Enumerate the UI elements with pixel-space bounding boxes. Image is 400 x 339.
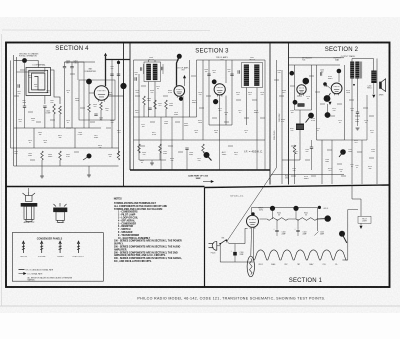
switch SW1 on/off: [220, 240, 226, 244]
test point TP15: [270, 206, 275, 211]
label rectifier label: [258, 208, 264, 212]
wire up to rect pin: [245, 228, 248, 243]
label C204 label: [355, 119, 359, 123]
wire stub s2: [290, 85, 295, 87]
capacitor C406: [94, 114, 97, 115]
label C203 label: [305, 149, 309, 153]
label value C217 section2: [350, 164, 354, 168]
wire s2 vertical b: [281, 70, 283, 184]
capacitor C301 trimmer: [162, 67, 163, 70]
capacitor C403: [110, 74, 113, 75]
wire bus s2 lower: [317, 139, 345, 141]
junction rect top: [251, 212, 254, 215]
wire to ground G3: [151, 160, 153, 163]
ground G4: [356, 128, 360, 130]
capacitor C201: [325, 83, 326, 86]
label value R409 section4: [75, 98, 80, 102]
junction switch in: [219, 243, 221, 245]
wire padder down: [44, 107, 46, 128]
wire top bus s4 ext: [65, 61, 85, 63]
resistor R405: [59, 151, 62, 160]
test point TP4 1st IF grid: [177, 54, 182, 59]
wire s3 drop to bottom 5: [256, 140, 258, 170]
label value C314 section3: [198, 92, 202, 96]
test point TP13 50A5 grid: [324, 95, 331, 102]
wire 2nd IF cathode down: [219, 95, 221, 140]
label ground note section 4: [19, 53, 39, 58]
wire stub s3: [244, 117, 249, 119]
wire stub s2: [369, 157, 374, 159]
test point TP5 1st IF cathode: [179, 97, 183, 101]
label Z300 label: [148, 57, 154, 61]
wire 2nd IF plate up: [225, 60, 227, 83]
label value C318 section3: [260, 92, 264, 96]
wire stub s4: [28, 111, 33, 113]
wire c204 down: [357, 113, 359, 126]
resistor R101: [296, 218, 317, 221]
wire s2 vertical g: [351, 95, 353, 184]
label value C313 section3: [174, 112, 178, 116]
wire stub s3: [206, 95, 211, 97]
label value C319 section3: [244, 130, 248, 134]
label value C213 section2: [350, 108, 354, 112]
legend arrowhead: [23, 272, 26, 275]
capacitor C305 trimmer: [238, 70, 239, 73]
wire stub s2: [363, 107, 368, 109]
wire c407 down: [24, 107, 26, 128]
resistor R300: [143, 96, 146, 105]
coil Z300 primary: [146, 64, 151, 80]
label R201 value: [294, 151, 298, 155]
wire s3 vertical e: [208, 60, 210, 125]
test point TP3 wave switch: [87, 154, 92, 159]
resistor R100: [267, 218, 288, 221]
label value R206 section2: [282, 90, 286, 94]
wire thick bus to divider: [106, 59, 131, 61]
resistor R402: [59, 106, 62, 114]
wire r401 down: [100, 110, 102, 120]
wire stub s4: [36, 121, 41, 123]
tube V2 7B7 1st IF: [174, 86, 185, 98]
wire stub to TP17: [317, 218, 324, 220]
label R203 label: [371, 149, 375, 153]
wire stub s4: [106, 127, 111, 129]
wire section 3 left edge: [129, 43, 131, 170]
wire stub s4: [70, 73, 75, 75]
wire 2nd IF out down: [225, 96, 227, 125]
wire stub s3: [191, 75, 196, 77]
wire s2 vertical d: [311, 65, 313, 110]
wire s3 drop mid 3: [182, 96, 184, 140]
wire stub s4: [30, 159, 35, 161]
label value R317 section3: [152, 132, 157, 136]
speaker SP1: [380, 79, 386, 92]
wire stub s3: [141, 85, 146, 87]
wire stub s3: [228, 145, 233, 147]
label value R407 section4: [34, 84, 38, 88]
wire stub s2: [355, 115, 360, 117]
test point TP volume: [308, 113, 314, 119]
knob control VOLUME: [40, 241, 43, 253]
resistor R306: [202, 144, 205, 153]
wire rect to ballast: [250, 228, 253, 257]
wire c100 top: [234, 244, 236, 252]
wire cap C103 drop: [276, 219, 278, 230]
label R403 label: [38, 132, 42, 136]
capacitor C308: [185, 148, 188, 149]
wire drop x317: [316, 208, 318, 232]
wire TP volume tail: [306, 116, 312, 123]
label value C412 section4: [28, 75, 32, 79]
label R405 value: [66, 154, 71, 158]
capacitor C306: [207, 74, 210, 75]
label value R314 section3: [248, 92, 252, 96]
label value R211 section2: [354, 140, 358, 144]
wire stub s3: [252, 99, 257, 101]
wire s3 vertical d: [202, 60, 204, 140]
filament string of tubes: [254, 250, 348, 260]
wire r100-r101: [288, 218, 296, 220]
label converter tube label: [84, 68, 96, 73]
wire r405 gnd drop: [59, 160, 61, 166]
wire rect cathode to string: [253, 228, 255, 260]
wire stub s3: [163, 95, 168, 97]
wire bus s1 top: [252, 207, 318, 209]
wire B plus bus s2 top: [289, 57, 345, 59]
wire bus s2 right: [345, 139, 368, 141]
wire T200 pri down: [351, 79, 353, 96]
wire vol top: [299, 110, 301, 124]
test point TP14 s2 lower: [340, 149, 346, 155]
coil T200 output transformer secondary: [355, 62, 359, 79]
test point TP7 2nd IF cathode: [213, 99, 218, 104]
transformer T200 core lines: [360, 62, 362, 79]
wire stub s3: [212, 117, 217, 119]
label C409 label: [28, 153, 32, 157]
switch SW1 lever: [83, 156, 89, 160]
page edge shadow top: [2, 29, 210, 32]
capacitor C405 padder: [43, 106, 46, 107]
label C103 label: [281, 231, 285, 235]
wire mid drop 1: [33, 128, 35, 148]
resistor R302: [165, 100, 168, 109]
capacitor C100 electrolytic: [233, 252, 237, 256]
resistor R401: [100, 102, 103, 110]
wire grid to tube: [89, 92, 95, 94]
label value C209 section2: [290, 110, 294, 114]
junction dot bus: [117, 61, 120, 64]
wire stub s3: [150, 121, 155, 123]
wire s3 vertical g: [264, 60, 266, 140]
label C308 value: [189, 152, 193, 156]
label C206 label: [325, 159, 329, 163]
wire avc pointer tail: [207, 155, 212, 161]
label value R318 section3: [170, 158, 174, 162]
wire trimmer link left: [142, 64, 144, 74]
capacitor C404: [117, 74, 120, 75]
wire s2 vertical a: [276, 60, 278, 168]
wire s3 drop to bottom 3: [186, 149, 188, 170]
wire cap C104 drop: [297, 219, 299, 230]
label C406 value: [99, 118, 103, 122]
resistor R400 osc grid: [88, 104, 91, 112]
wire pilot stub: [360, 223, 362, 225]
wire s3 drop mid 2: [171, 117, 173, 140]
wire stub s2: [337, 103, 342, 105]
label C302 label: [134, 72, 138, 76]
resistor R304: [138, 144, 141, 153]
wire s2 link under tube: [295, 109, 312, 111]
label value C310 section3: [135, 90, 139, 94]
wire T200 to choke: [358, 59, 374, 78]
test point arrow 50A5 cathode: [328, 102, 331, 105]
wire field coil down: [373, 83, 375, 94]
label value C315 section3: [212, 70, 216, 74]
wire rect top: [251, 208, 253, 216]
label R300 value: [147, 98, 152, 102]
wire s3 vertical b: [196, 60, 198, 117]
wire loop inner tap down: [44, 96, 46, 105]
wire stub s2: [369, 115, 374, 117]
wire s3 drop to bottom 4: [219, 140, 221, 170]
wire r300 down: [143, 105, 145, 117]
test point TP6 2nd IF grid: [212, 79, 217, 84]
junction +105V: [318, 206, 321, 209]
wire plug out: [217, 245, 220, 247]
label value R207 section2: [290, 128, 294, 132]
wire TP18 tail: [342, 234, 347, 243]
label value R210 section2: [346, 90, 351, 94]
label C402 label: [110, 66, 114, 70]
wire stub s4: [74, 151, 79, 153]
capacitor C200: [321, 72, 322, 75]
wire stub s2: [279, 95, 284, 97]
label AVC label: [222, 151, 227, 156]
label value C415 section4: [66, 120, 70, 124]
junction T200: [353, 84, 355, 86]
wire stub s3: [175, 121, 180, 123]
wire stub s3: [236, 99, 241, 101]
AC plug P1: [209, 241, 217, 250]
wire c203 down: [311, 148, 313, 170]
wire stub s3: [199, 107, 204, 109]
wire section 2 left bus: [288, 43, 290, 185]
wire upper link left: [17, 71, 45, 73]
label value R413 section4: [98, 145, 102, 149]
wire mid drop 2: [74, 128, 76, 148]
label C410 label: [14, 151, 18, 155]
wire lower bus s3: [134, 139, 266, 141]
divider bottom of section 3: [130, 169, 270, 171]
label C304 label: [164, 121, 168, 125]
wire stub s4: [50, 119, 55, 121]
wire stub s2: [274, 79, 279, 81]
test point TP18: [339, 231, 345, 237]
wire mid bus section 4: [14, 127, 101, 129]
wire stub s2: [305, 159, 310, 161]
label value C208 section2: [277, 70, 281, 74]
wire c105 pointer: [314, 232, 318, 236]
wire loop top to ground lug: [25, 61, 39, 68]
test point TP16: [293, 206, 298, 211]
label value C212 section2: [332, 108, 336, 112]
label C411 label: [17, 91, 21, 95]
wire s2 far right vertical: [376, 59, 378, 185]
ground G3: [150, 163, 154, 165]
wire s2 vertical i: [361, 140, 363, 184]
wire stub s2: [315, 91, 320, 93]
wire stub s2: [309, 75, 314, 77]
potentiometer R200 volume control: [296, 124, 304, 131]
wire stub s3: [178, 151, 183, 153]
wire 50A5 grid lead: [327, 93, 331, 99]
tube V4 7C6 det audio: [297, 85, 306, 96]
label R303 label: [184, 123, 189, 127]
converter shield box: [79, 80, 115, 120]
wire stub s2: [291, 175, 296, 177]
wire tp16 drop: [295, 208, 297, 219]
label C104 label: [302, 231, 306, 235]
wire top bus section 4: [65, 61, 96, 63]
wire top bus s2: [289, 64, 341, 66]
label pilot light label: [362, 218, 367, 222]
ground G1: [40, 176, 44, 178]
wire stub s4: [66, 127, 71, 129]
capacitor C103: [275, 230, 278, 231]
label value C413 section4: [18, 119, 22, 123]
label value C419 section4: [28, 140, 32, 144]
label C307 label: [227, 69, 231, 73]
wire s3 drop to bottom 1: [160, 140, 162, 170]
wire vol return: [282, 145, 300, 160]
wire grid cap drop: [305, 83, 307, 85]
label value R311 section3: [198, 120, 203, 124]
label C400: [66, 61, 70, 65]
wire res row start: [266, 218, 267, 220]
tube V6 35Y4 rectifier: [247, 215, 259, 229]
label case part of C100: [188, 175, 209, 181]
wire section 3/2 divider: [269, 43, 271, 185]
label 1st IF tube label: [177, 67, 188, 72]
label value C312 section3: [156, 86, 160, 90]
label value R215 section2: [368, 166, 372, 170]
wire ground lug to left: [14, 60, 25, 62]
test point TP17 B plus: [325, 215, 331, 221]
wire r201 down: [294, 154, 296, 184]
knob control OFF-ON: [22, 241, 25, 253]
label value C214 section2: [364, 120, 368, 124]
wire 50A5 plate up: [338, 71, 340, 82]
wire converter grid drop: [88, 84, 90, 104]
wire tube plate to divider: [108, 95, 124, 97]
wire s4 vertical extra b: [83, 62, 85, 128]
wire stub s3: [168, 145, 173, 147]
small hatched label box section 2: [298, 103, 305, 106]
wire s2 vertical c: [294, 65, 296, 110]
wire z300 sec top: [154, 60, 156, 62]
coil Z300 secondary: [153, 64, 158, 80]
wire switch to rect: [226, 241, 245, 244]
capacitor C104: [296, 230, 299, 231]
wire tp15 drop: [272, 208, 274, 219]
label value C416 section4: [110, 120, 114, 124]
label value R309 section3: [168, 90, 173, 94]
wire osc vertical 1: [64, 68, 66, 128]
label legend line 3: [28, 277, 73, 282]
page edge shadow left: [1, 34, 3, 306]
test point TP1 converter grid: [86, 79, 92, 85]
wire osc vertical 2: [71, 68, 73, 128]
wire gnd bus section 4: [14, 165, 119, 167]
wire to pilot light: [352, 185, 361, 217]
label C405 label: [46, 111, 51, 115]
wire s2 vertical h: [321, 140, 323, 184]
wire right vertical a: [111, 60, 113, 149]
wire loop out to node: [51, 70, 61, 104]
junction switch out: [226, 239, 228, 241]
legend signal path arrow: [19, 273, 25, 275]
label value C414 section4: [66, 90, 70, 94]
label value C215 section2: [338, 120, 342, 124]
label det audio label: [302, 57, 313, 62]
wire r402 down: [59, 114, 61, 128]
wire TP14 tail: [339, 152, 343, 157]
test point TP10 grid cap 7C6: [303, 78, 310, 85]
label 2nd IF tube label: [216, 56, 228, 61]
wire stub s2: [327, 149, 332, 151]
label value R212 section2: [370, 130, 374, 134]
knob functions box: [12, 233, 103, 282]
label C306 label: [204, 69, 208, 73]
aerial terminal symbol 2: [54, 203, 68, 222]
wire s2 vertical j: [366, 95, 368, 140]
wire c204 top: [357, 101, 359, 112]
capacitor C407: [23, 106, 26, 107]
test point TP8 AVC: [204, 152, 210, 158]
label value R315 section3: [254, 110, 259, 114]
wire r302 down: [165, 109, 167, 117]
label value C320 section3: [194, 130, 198, 134]
label value C417 section4: [94, 135, 98, 139]
wire bottom return bus: [220, 246, 253, 262]
svg-text:PHILCO RADIO MODEL 46-142, COD: PHILCO RADIO MODEL 46-142, CODE 121, TRA…: [137, 297, 325, 301]
wire stub s4: [80, 107, 85, 109]
coil L200 speaker field: [371, 71, 376, 84]
wire osc coil down: [53, 114, 55, 128]
inductor L401 osc coil: [53, 104, 56, 114]
label R406 value: [108, 154, 112, 158]
wire grid cap lead thick: [177, 56, 180, 86]
test point arrow pilot: [359, 226, 362, 229]
resistor R301: [154, 100, 157, 109]
label C202 label: [348, 149, 352, 153]
wire right vertical b: [118, 60, 120, 156]
wire stub s2: [311, 175, 316, 177]
wire junction to tube: [325, 84, 330, 88]
wire link to loop: [44, 68, 46, 73]
knob control ELECTRICITY: [77, 241, 80, 253]
wire stub s3: [135, 95, 140, 97]
tube V5 50A5 output: [331, 83, 342, 95]
wire stub s2: [337, 163, 342, 165]
wire stub s2: [320, 103, 325, 105]
label value C216 section2: [292, 168, 296, 172]
wire riser top stub: [348, 209, 358, 211]
wire section4/3 boundary bus: [123, 43, 125, 187]
label value R209 section2: [328, 76, 333, 80]
label R301 value: [158, 103, 162, 107]
label value R313 section3: [236, 92, 240, 96]
